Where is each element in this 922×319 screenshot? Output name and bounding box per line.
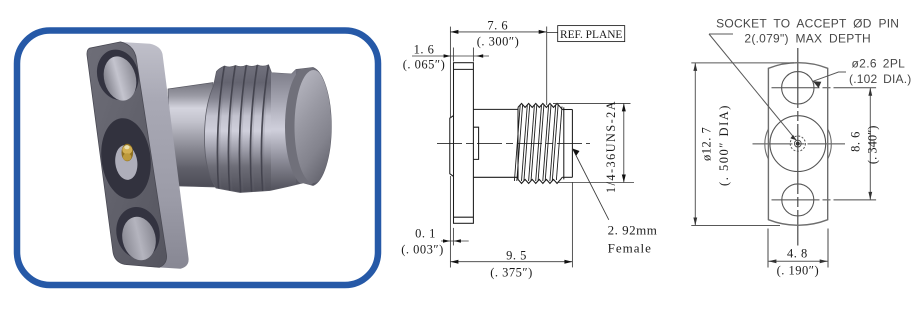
dim phi12.7 extension bottom <box>691 225 780 227</box>
top hole bore <box>99 53 141 105</box>
svg-text:2. 92mm: 2. 92mm <box>608 223 658 238</box>
svg-text:2(.079") MAX DEPTH: 2(.079") MAX DEPTH <box>744 31 871 45</box>
boss-neck shadow edge <box>179 122 182 186</box>
svg-text:8. 6: 8. 6 <box>849 131 863 152</box>
bottom hole dark rim <box>111 203 165 263</box>
neck cylinder <box>473 108 518 110</box>
centerline bottom hole <box>772 199 877 201</box>
bottom mounting hole <box>782 184 814 216</box>
gold socket contact <box>122 144 134 162</box>
interface dielectric <box>113 144 139 181</box>
leader socket: underline <box>709 33 733 35</box>
dim phi12.7 extension top <box>691 62 794 64</box>
svg-text:SOCKET TO ACCEPT ØD PIN: SOCKET TO ACCEPT ØD PIN <box>716 17 899 31</box>
svg-text:REF. PLANE: REF. PLANE <box>560 29 622 41</box>
flange side face 3d <box>121 42 189 269</box>
dim 0.1 arrows <box>443 239 450 243</box>
dim 1.6 line <box>412 55 489 57</box>
REF PLANE box link <box>547 32 558 34</box>
big cylinder body <box>205 65 332 193</box>
thread runout line <box>563 107 565 179</box>
svg-text:7. 6: 7. 6 <box>487 19 508 33</box>
svg-text:(. 003″): (. 003″) <box>401 243 444 257</box>
leader 2.92mm Female <box>573 149 609 220</box>
svg-text:0. 1: 0. 1 <box>415 226 436 240</box>
svg-text:(. 190″): (. 190″) <box>777 264 820 278</box>
blue rounded frame <box>17 31 378 286</box>
thread grooves 3d <box>217 61 269 197</box>
interface middle circle dotted <box>790 136 805 151</box>
dim phi12.7 line <box>694 63 696 226</box>
svg-text:1. 6: 1. 6 <box>414 43 435 57</box>
back boss 3d <box>162 119 182 187</box>
interface outer circle <box>770 116 826 172</box>
top mounting hole <box>782 72 814 104</box>
dim 4.8 line <box>768 260 828 262</box>
thread left edge <box>517 107 519 179</box>
thread zigzag top <box>518 103 562 109</box>
REF PLANE box <box>558 26 625 42</box>
collar band <box>271 60 296 195</box>
svg-text:(. 375″): (. 375″) <box>490 265 533 279</box>
dim 9.5 arrows <box>450 260 458 264</box>
svg-text:ø12. 7: ø12. 7 <box>700 127 714 161</box>
centerline top hole <box>772 87 877 89</box>
flange plate <box>454 63 474 224</box>
thread callout dim line <box>623 103 625 182</box>
ref plane vertical line <box>546 27 548 106</box>
svg-text:(. 340″): (. 340″) <box>866 126 880 165</box>
neck circle bulge left <box>765 129 769 159</box>
dim 9.5 line <box>450 261 572 263</box>
svg-text:9. 5: 9. 5 <box>506 249 527 263</box>
interface center dot <box>796 142 800 146</box>
centerline middle <box>753 143 846 145</box>
thread zigzag bottom <box>518 177 562 183</box>
mating boss 0.1 step <box>450 116 454 177</box>
svg-text:(. 065″): (. 065″) <box>403 58 446 72</box>
thread callout extensions <box>553 102 631 104</box>
neck cylinder 3d <box>168 83 215 188</box>
flange outline <box>768 63 827 226</box>
svg-text:(.102 DIA.): (.102 DIA.) <box>849 72 911 86</box>
centerline <box>437 142 590 144</box>
svg-text:(. 500″ DIA): (. 500″ DIA) <box>717 104 731 186</box>
extension ticks for 1.6 <box>452 48 454 62</box>
extension line left (mating face) <box>449 27 451 117</box>
thread groove soft shadows <box>219 61 271 197</box>
bottom hole bore <box>118 213 160 263</box>
dim 7.6 line <box>450 31 546 33</box>
leader socket: diagonal <box>709 34 796 140</box>
svg-text:(. 300″): (. 300″) <box>477 35 520 49</box>
svg-text:ø2.6 2PL: ø2.6 2PL <box>852 57 906 71</box>
end face 3d <box>295 70 333 183</box>
dim 4.8 extensions <box>767 229 769 268</box>
end rim <box>285 67 328 186</box>
interface boss dark <box>97 115 156 201</box>
dim 8.6 line <box>869 88 871 200</box>
end face <box>571 110 573 178</box>
svg-text:4. 8: 4. 8 <box>787 247 808 261</box>
pilot section <box>562 109 572 111</box>
flange front face 3d <box>87 42 167 267</box>
neck circle bulge right <box>828 129 832 159</box>
leader phi2.6 <box>813 72 846 81</box>
top hole dark rim <box>91 45 144 105</box>
dim 9.5 right extension <box>571 182 573 267</box>
dim 1.6 arrows <box>444 54 451 58</box>
centerline vertical <box>797 48 799 246</box>
svg-text:Female: Female <box>608 240 652 255</box>
dim 7.6 arrows <box>450 30 458 34</box>
interface small circle <box>794 140 801 147</box>
dim 0.1 ticks <box>452 228 454 246</box>
back boss <box>473 127 478 159</box>
svg-text:1/4-36UNS-2A: 1/4-36UNS-2A <box>604 100 618 193</box>
dim 0.1 line <box>441 240 469 242</box>
thread flank hatch <box>514 105 562 181</box>
